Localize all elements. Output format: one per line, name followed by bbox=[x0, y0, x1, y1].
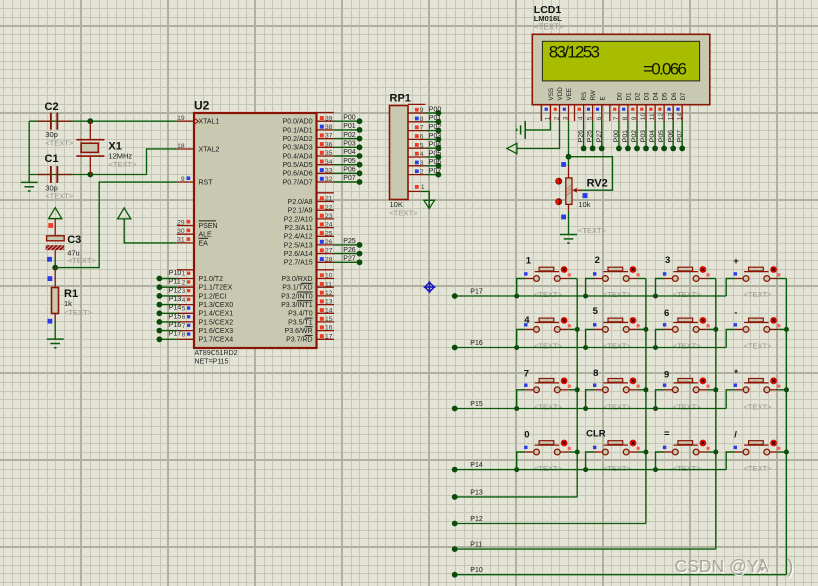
svg-text:7: 7 bbox=[524, 368, 529, 379]
svg-text:XTAL1: XTAL1 bbox=[199, 119, 220, 126]
svg-text:P26: P26 bbox=[343, 247, 356, 254]
U2 pin 26 P2.5/A13 bbox=[317, 244, 335, 246]
power arrow (LCD VDD) bbox=[507, 143, 517, 153]
svg-text:29: 29 bbox=[177, 219, 185, 226]
RV2 wiper arrow bbox=[573, 189, 581, 191]
crystal X1 bbox=[76, 121, 104, 174]
pin group separator lines bbox=[317, 112, 334, 114]
svg-text:P15: P15 bbox=[169, 313, 182, 320]
wire keypad column net P11 bbox=[455, 548, 716, 550]
svg-text:6: 6 bbox=[596, 116, 603, 120]
svg-text:P00: P00 bbox=[613, 130, 620, 142]
svg-text:<TEXT>: <TEXT> bbox=[108, 160, 137, 169]
svg-text:<TEXT>: <TEXT> bbox=[68, 256, 97, 265]
svg-text:15: 15 bbox=[325, 316, 333, 323]
U2 pin 4 P1.3 with net label P13 wire bbox=[177, 304, 194, 306]
svg-text:24: 24 bbox=[325, 222, 333, 229]
power arrow (C3) bbox=[49, 208, 62, 219]
svg-text:P2.6/A14: P2.6/A14 bbox=[284, 251, 313, 258]
node junction C1/X1 bbox=[87, 172, 93, 178]
svg-text:P27: P27 bbox=[343, 256, 356, 263]
svg-text:P3.0/RXD: P3.0/RXD bbox=[281, 276, 312, 283]
svg-text:21: 21 bbox=[325, 196, 333, 203]
svg-text:P1.3/CEX0: P1.3/CEX0 bbox=[199, 302, 234, 309]
wire LCD pin 11 net P04 bbox=[654, 121, 656, 148]
op-amp U2 body (AT89C51RD2 MCU) bbox=[194, 113, 317, 348]
svg-text:<TEXT>: <TEXT> bbox=[603, 464, 632, 473]
node junction C2/X1 bbox=[87, 118, 93, 124]
svg-text:P02: P02 bbox=[343, 132, 356, 139]
svg-text:P02: P02 bbox=[631, 130, 638, 142]
svg-text:P01: P01 bbox=[343, 123, 356, 130]
svg-text:P17: P17 bbox=[169, 331, 182, 338]
svg-text:<TEXT>: <TEXT> bbox=[45, 192, 74, 201]
svg-text:VEE: VEE bbox=[566, 88, 573, 101]
svg-text:P06: P06 bbox=[667, 130, 674, 142]
U2 pin 31 EA stub bbox=[177, 242, 194, 244]
wire VEE junction to RV2 wiper loop bbox=[569, 157, 613, 191]
svg-text:34: 34 bbox=[325, 159, 333, 166]
svg-text:<TEXT>: <TEXT> bbox=[390, 209, 419, 218]
svg-text:P01: P01 bbox=[622, 130, 629, 142]
U2 pin 32 P0.7/AD7 with net label P07 bbox=[317, 181, 335, 183]
wire keypad column 4 vertical bbox=[785, 279, 787, 575]
svg-text:5: 5 bbox=[587, 116, 594, 120]
U2 pin 30 ALE stub bbox=[177, 233, 194, 235]
wire keypad column net P13 bbox=[455, 496, 578, 498]
wire LCD pin 7 net P00 bbox=[618, 121, 620, 148]
RP1 pin group top line bbox=[408, 103, 425, 105]
svg-text:3: 3 bbox=[420, 160, 424, 167]
wire LCD pin 5 net P25 bbox=[592, 121, 594, 148]
svg-text:9: 9 bbox=[420, 107, 424, 114]
svg-text:P1.2/ECI: P1.2/ECI bbox=[199, 293, 227, 300]
svg-text:P2.1/A9: P2.1/A9 bbox=[288, 208, 313, 215]
svg-text:P0.1/AD1: P0.1/AD1 bbox=[283, 127, 313, 134]
capacitor C3 (electrolytic) bbox=[47, 236, 65, 241]
U2 pin 3 P1.2 with net label P12 wire bbox=[177, 295, 194, 297]
RV2 adjust buttons (red circles) bbox=[556, 178, 562, 184]
svg-text:D4: D4 bbox=[653, 92, 660, 101]
svg-text:P3.2/INT0: P3.2/INT0 bbox=[281, 293, 313, 300]
svg-text:P3.3/INT1: P3.3/INT1 bbox=[281, 302, 313, 309]
svg-text:P05: P05 bbox=[343, 158, 356, 165]
svg-text:<TEXT>: <TEXT> bbox=[744, 464, 773, 473]
svg-text:D2: D2 bbox=[635, 92, 642, 101]
LCD screen bbox=[542, 41, 699, 81]
svg-text:7: 7 bbox=[420, 125, 424, 132]
svg-text:P0.6/AD6: P0.6/AD6 bbox=[283, 171, 313, 178]
svg-text:PSEN: PSEN bbox=[199, 223, 218, 230]
svg-text:D5: D5 bbox=[662, 92, 669, 101]
svg-text:VSS: VSS bbox=[548, 88, 555, 101]
CSDN watermark bbox=[676, 558, 795, 580]
svg-text:<TEXT>: <TEXT> bbox=[64, 308, 93, 317]
svg-text:C1: C1 bbox=[45, 153, 59, 165]
svg-text:10: 10 bbox=[325, 273, 333, 280]
svg-text:1: 1 bbox=[526, 255, 532, 266]
svg-text:9: 9 bbox=[664, 369, 669, 380]
svg-text:P03: P03 bbox=[343, 141, 356, 148]
button "CLR" keypad row 4 col 2 bbox=[586, 440, 646, 470]
svg-text:1: 1 bbox=[545, 116, 552, 120]
wire junction to R1 bbox=[54, 268, 56, 288]
svg-text:<TEXT>: <TEXT> bbox=[603, 403, 632, 412]
svg-text:CLR: CLR bbox=[586, 429, 606, 440]
svg-text:P15: P15 bbox=[470, 401, 483, 408]
svg-text:EA: EA bbox=[199, 240, 209, 247]
svg-text:P11: P11 bbox=[169, 279, 181, 286]
svg-text:4: 4 bbox=[524, 315, 530, 326]
svg-text:P07: P07 bbox=[429, 168, 442, 175]
U2 pin 28 P2.7/A15 bbox=[317, 261, 335, 263]
U2 pin 19 XTAL1 stub bbox=[177, 120, 194, 122]
net label P27 wire bbox=[334, 261, 360, 263]
svg-text:P07: P07 bbox=[343, 175, 356, 182]
U2 pin 14 P3.4/T0 bbox=[317, 312, 335, 314]
svg-text:C2: C2 bbox=[45, 101, 59, 113]
wire C3 bottom to junction bbox=[54, 250, 56, 258]
svg-text:=: = bbox=[664, 429, 670, 440]
svg-text:10k: 10k bbox=[578, 200, 590, 209]
svg-text:P10: P10 bbox=[470, 567, 483, 574]
button "8" keypad row 3 col 2 bbox=[586, 377, 646, 408]
RP1 pin 3 with net label P06 bbox=[408, 165, 425, 167]
net label P26 wire bbox=[334, 253, 360, 255]
wire junction to RV2 top bbox=[568, 157, 570, 166]
svg-text:D7: D7 bbox=[680, 92, 687, 101]
svg-text:P3.6/WR: P3.6/WR bbox=[285, 328, 313, 335]
svg-text:17: 17 bbox=[325, 333, 333, 340]
svg-text:<TEXT>: <TEXT> bbox=[673, 290, 702, 299]
U2 pin 9 RST stub bbox=[177, 181, 194, 183]
svg-text:5: 5 bbox=[593, 306, 599, 317]
svg-text:9: 9 bbox=[181, 176, 185, 183]
svg-text:1: 1 bbox=[182, 271, 186, 278]
svg-text:P07: P07 bbox=[676, 130, 683, 142]
svg-text:<TEXT>: <TEXT> bbox=[534, 403, 563, 412]
svg-text:8: 8 bbox=[593, 368, 598, 379]
svg-text:P1.0/T2: P1.0/T2 bbox=[199, 276, 224, 283]
svg-text:33: 33 bbox=[325, 167, 333, 174]
node RST junction at C3/R1 bbox=[52, 265, 58, 271]
svg-text:D0: D0 bbox=[617, 92, 624, 101]
U2 pin 11 P3.1/TXD bbox=[317, 286, 335, 288]
svg-text:U2: U2 bbox=[194, 98, 210, 112]
svg-text:4: 4 bbox=[578, 116, 585, 120]
svg-text:13: 13 bbox=[325, 299, 333, 306]
svg-text:RST: RST bbox=[199, 179, 214, 186]
U2 pin 18 XTAL2 stub bbox=[177, 148, 194, 150]
svg-text:<TEXT>: <TEXT> bbox=[673, 403, 702, 412]
svg-text:P0.5/AD5: P0.5/AD5 bbox=[283, 162, 313, 169]
U2 pin 24 P2.3/A11 bbox=[317, 227, 335, 229]
svg-text:P2.5/A13: P2.5/A13 bbox=[284, 242, 313, 249]
svg-text:2: 2 bbox=[420, 169, 424, 176]
svg-text:12: 12 bbox=[658, 113, 665, 121]
svg-text:<TEXT>: <TEXT> bbox=[534, 342, 563, 351]
wire keypad column net P12 bbox=[455, 523, 646, 525]
svg-text:P0.4/AD4: P0.4/AD4 bbox=[283, 153, 313, 160]
svg-text:8: 8 bbox=[182, 332, 186, 339]
svg-text:27: 27 bbox=[325, 248, 333, 255]
RP1 pin 6 with net label P03 bbox=[408, 138, 425, 140]
svg-text:C3: C3 bbox=[67, 234, 81, 246]
U2 pin 38 P0.1/AD1 with net label P01 bbox=[317, 129, 335, 131]
button "-" keypad row 2 col 4 bbox=[726, 317, 786, 348]
svg-text:): ) bbox=[787, 557, 793, 578]
svg-text:P1.4/CEX1: P1.4/CEX1 bbox=[199, 311, 234, 318]
svg-text:4: 4 bbox=[420, 151, 424, 158]
svg-text:P13: P13 bbox=[169, 296, 182, 303]
svg-text:25: 25 bbox=[325, 230, 333, 237]
U2 pin 29 PSEN stub bbox=[177, 225, 194, 227]
svg-text:1k: 1k bbox=[64, 299, 72, 308]
U2 pin 2 P1.1 with net label P11 wire bbox=[177, 286, 194, 288]
svg-text:P05: P05 bbox=[429, 150, 442, 157]
C3 blue square bbox=[47, 257, 52, 262]
svg-text:4: 4 bbox=[182, 297, 186, 304]
wire R1 to ground bbox=[54, 314, 56, 322]
svg-text:<TEXT>: <TEXT> bbox=[603, 342, 632, 351]
wire EA to power bbox=[124, 219, 177, 243]
U2 pin 7 P1.6 with net label P16 wire bbox=[177, 330, 194, 332]
U2 pin 17 P3.7/RD bbox=[317, 338, 335, 340]
wire keypad row net P16 bbox=[455, 347, 727, 349]
svg-text:16: 16 bbox=[325, 325, 333, 332]
svg-text:2: 2 bbox=[554, 116, 561, 120]
svg-text:8: 8 bbox=[420, 116, 424, 123]
wire keypad row net P17 bbox=[455, 295, 727, 297]
svg-text:XTAL2: XTAL2 bbox=[199, 146, 220, 153]
wire LCD pin 9 net P02 bbox=[636, 121, 638, 148]
wire keypad column 2 vertical bbox=[645, 279, 647, 524]
resistor R1 bbox=[52, 288, 59, 314]
U2 pin 39 P0.0/AD0 with net label P00 bbox=[317, 120, 335, 122]
U2 pin 33 P0.6/AD6 with net label P06 bbox=[317, 172, 335, 174]
wire keypad row net P14 bbox=[455, 469, 727, 471]
svg-text:26: 26 bbox=[325, 239, 333, 246]
LCD pin group separator stubs bbox=[540, 105, 542, 121]
svg-text:7: 7 bbox=[613, 116, 620, 120]
svg-text:P17: P17 bbox=[470, 288, 483, 295]
svg-text:+: + bbox=[733, 256, 739, 267]
svg-text:<TEXT>: <TEXT> bbox=[534, 23, 564, 32]
svg-text:=0.066: =0.066 bbox=[643, 60, 687, 79]
svg-text:P02: P02 bbox=[429, 124, 442, 131]
wire XTAL1 net: C2 to U2 XTAL1 bbox=[29, 120, 177, 122]
svg-text:P0.0/AD0: P0.0/AD0 bbox=[283, 119, 313, 126]
wire LCD VSS to ground bbox=[525, 121, 550, 130]
U2 pin 22 P2.1/A9 bbox=[317, 209, 335, 211]
svg-text:P00: P00 bbox=[343, 114, 356, 121]
svg-text:<TEXT>: <TEXT> bbox=[534, 464, 563, 473]
RP1 pin 5 with net label P04 bbox=[408, 147, 425, 149]
svg-text:22: 22 bbox=[325, 204, 333, 211]
svg-text:6: 6 bbox=[420, 134, 424, 141]
svg-text:P03: P03 bbox=[640, 130, 647, 142]
svg-text:ALE: ALE bbox=[199, 232, 213, 239]
svg-text:6: 6 bbox=[182, 314, 186, 321]
U2 pin 25 P2.4/A12 bbox=[317, 235, 335, 237]
svg-text:5: 5 bbox=[420, 142, 424, 149]
svg-text:3: 3 bbox=[182, 288, 186, 295]
svg-text:36: 36 bbox=[325, 141, 333, 148]
svg-text:VDD: VDD bbox=[557, 87, 564, 101]
svg-text:<TEXT>: <TEXT> bbox=[744, 342, 773, 351]
svg-text:19: 19 bbox=[177, 115, 185, 122]
svg-text:CSDN @YA: CSDN @YA bbox=[675, 556, 770, 576]
wire LCD pin 12 net P05 bbox=[663, 121, 665, 148]
svg-text:P14: P14 bbox=[470, 462, 483, 469]
svg-text:P1.5/CEX2: P1.5/CEX2 bbox=[199, 319, 234, 326]
svg-text:11: 11 bbox=[325, 281, 332, 288]
svg-text:D1: D1 bbox=[626, 92, 633, 101]
svg-text:P04: P04 bbox=[429, 142, 442, 149]
svg-text:39: 39 bbox=[325, 115, 333, 122]
svg-text:38: 38 bbox=[325, 124, 333, 131]
svg-text:18: 18 bbox=[177, 143, 185, 150]
U2 pin 13 P3.3/INT1 bbox=[317, 304, 335, 306]
svg-text:14: 14 bbox=[325, 307, 333, 314]
U2 pin 15 P3.5/T1 bbox=[317, 321, 335, 323]
svg-text:P1.6/CEX3: P1.6/CEX3 bbox=[199, 328, 234, 335]
svg-text:P27: P27 bbox=[596, 130, 603, 142]
svg-text:P26: P26 bbox=[578, 130, 585, 142]
U2 pin 36 P0.3/AD3 with net label P03 bbox=[317, 146, 335, 148]
U2 pin 21 P2.0/A8 bbox=[317, 201, 335, 203]
wire keypad column 1 vertical bbox=[576, 279, 578, 497]
U2 pin 6 P1.5 with net label P15 wire bbox=[177, 321, 194, 323]
svg-text:7: 7 bbox=[182, 323, 186, 330]
svg-text:<TEXT>: <TEXT> bbox=[45, 139, 74, 148]
wire LCD VDD to power bbox=[517, 121, 560, 149]
U2 pin 16 P3.6/WR bbox=[317, 330, 335, 332]
U2 pin 37 P0.2/AD2 with net label P02 bbox=[317, 138, 335, 140]
svg-text:9: 9 bbox=[631, 116, 638, 120]
svg-text:RP1: RP1 bbox=[390, 93, 411, 105]
RP1 pin 2 with net label P07 bbox=[408, 174, 425, 176]
wire LCD pin 13 net P06 bbox=[672, 121, 674, 148]
RP1 pin 4 with net label P05 bbox=[408, 156, 425, 158]
U2 pin 10 P3.0/RXD bbox=[317, 278, 335, 280]
wire power to C3 bbox=[54, 219, 56, 236]
button "*" keypad row 3 col 4 bbox=[726, 377, 786, 408]
ground (RV2) bbox=[560, 235, 577, 244]
svg-text:AT89C51RD2: AT89C51RD2 bbox=[195, 350, 238, 357]
svg-text:P12: P12 bbox=[169, 287, 182, 294]
button "+" keypad row 1 col 4 bbox=[726, 266, 786, 296]
svg-text:28: 28 bbox=[325, 256, 333, 263]
svg-text:<TEXT>: <TEXT> bbox=[534, 290, 563, 299]
svg-text:13: 13 bbox=[667, 113, 674, 121]
svg-text:11: 11 bbox=[649, 113, 656, 120]
svg-text:P2.0/A8: P2.0/A8 bbox=[288, 199, 313, 206]
ground arrow (RP1 pin1) bbox=[424, 200, 435, 208]
svg-text:P04: P04 bbox=[343, 149, 356, 156]
wire RV2 bottom to ground bbox=[568, 204, 570, 211]
button "9" keypad row 3 col 3 bbox=[656, 377, 716, 408]
svg-text:NET=P115: NET=P115 bbox=[195, 359, 229, 366]
wire LCD pin 6 net P27 bbox=[601, 121, 603, 148]
button "4" keypad row 2 col 1 bbox=[517, 317, 578, 348]
svg-text:8: 8 bbox=[622, 116, 629, 120]
svg-text:*: * bbox=[734, 368, 738, 379]
svg-text:P2.2/A10: P2.2/A10 bbox=[284, 216, 313, 223]
node VEE junction bbox=[566, 154, 572, 160]
button "1" keypad row 1 col 1 bbox=[517, 266, 578, 296]
svg-text:12: 12 bbox=[325, 290, 333, 297]
R1 blue square bottom bbox=[48, 319, 53, 324]
wire XTAL2 net: C1 to U2 XTAL2 bbox=[29, 149, 177, 175]
ground (R1) bbox=[47, 339, 64, 348]
button "7" keypad row 3 col 1 bbox=[517, 377, 578, 408]
C3 top red square bbox=[48, 223, 53, 228]
button "3" keypad row 1 col 3 bbox=[656, 266, 716, 296]
U2 pin 34 P0.5/AD5 with net label P05 bbox=[317, 164, 335, 166]
wire keypad column net P10 bbox=[455, 574, 787, 576]
svg-text:E: E bbox=[599, 96, 606, 100]
svg-text:P03: P03 bbox=[429, 133, 442, 140]
button "2" keypad row 1 col 2 bbox=[586, 266, 646, 296]
svg-text:<TEXT>: <TEXT> bbox=[673, 464, 702, 473]
svg-text:<TEXT>: <TEXT> bbox=[603, 290, 632, 299]
svg-text:P01: P01 bbox=[429, 115, 442, 122]
svg-text:30: 30 bbox=[177, 228, 185, 235]
svg-text:P0.3/AD3: P0.3/AD3 bbox=[283, 145, 313, 152]
U2 pin 8 P1.7 with net label P17 wire bbox=[177, 338, 194, 340]
U2 pin 5 P1.4 with net label P14 wire bbox=[177, 312, 194, 314]
button "=" keypad row 4 col 3 bbox=[656, 440, 716, 470]
button "/" keypad row 4 col 4 bbox=[726, 440, 786, 470]
svg-text:RS: RS bbox=[581, 92, 588, 101]
svg-text:P13: P13 bbox=[470, 489, 483, 496]
svg-text:35: 35 bbox=[325, 150, 333, 157]
svg-text:<TEXT>: <TEXT> bbox=[744, 290, 773, 299]
svg-text:<TEXT>: <TEXT> bbox=[578, 226, 607, 235]
wire LCD pin 4 net P26 bbox=[583, 121, 585, 148]
svg-text:5: 5 bbox=[182, 306, 186, 313]
wire LCD pin 14 net P07 bbox=[681, 121, 683, 148]
RV2 blue square top bbox=[561, 162, 566, 167]
svg-text:P05: P05 bbox=[658, 130, 665, 142]
svg-text:P06: P06 bbox=[343, 167, 356, 174]
wire left vertical C2-C1-gnd bbox=[28, 121, 30, 182]
svg-text:83/1253: 83/1253 bbox=[549, 43, 600, 62]
svg-text:2: 2 bbox=[182, 279, 186, 286]
wire LCD pin 8 net P01 bbox=[627, 121, 629, 148]
svg-text:D3: D3 bbox=[644, 92, 651, 101]
svg-text:P0.7/AD7: P0.7/AD7 bbox=[283, 179, 313, 186]
XTAL1 clock input marker bbox=[195, 119, 199, 124]
svg-text:P12: P12 bbox=[470, 516, 483, 523]
button "5" keypad row 2 col 2 bbox=[586, 317, 646, 348]
capacitor C2 bbox=[38, 113, 72, 130]
svg-text:P16: P16 bbox=[470, 340, 483, 347]
svg-text:32: 32 bbox=[325, 176, 333, 183]
svg-text:6: 6 bbox=[664, 308, 669, 319]
svg-text:P3.1/TXD: P3.1/TXD bbox=[282, 285, 312, 292]
svg-text:P25: P25 bbox=[587, 130, 594, 142]
svg-text:P14: P14 bbox=[169, 305, 182, 312]
RP1 pin 9 with net label P00 bbox=[408, 112, 425, 114]
svg-text:P10: P10 bbox=[169, 270, 182, 277]
svg-text:P04: P04 bbox=[649, 130, 656, 142]
svg-text:LM016L: LM016L bbox=[534, 14, 562, 23]
capacitor C1 bbox=[38, 166, 72, 183]
power arrow (EA) bbox=[118, 208, 131, 219]
svg-text:-: - bbox=[734, 307, 737, 318]
